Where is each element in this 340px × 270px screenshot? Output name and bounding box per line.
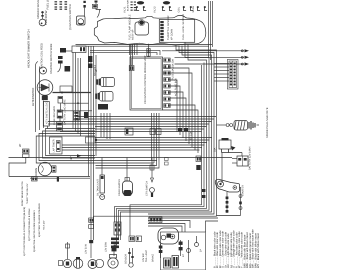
svg-text:SENS: SENS xyxy=(192,6,195,13)
label text xyxy=(238,231,241,268)
svg-text:LAP TIMER: LAP TIMER xyxy=(53,139,56,152)
wire xyxy=(95,160,157,162)
starter motor xyxy=(215,179,239,192)
svg-text:4) BATTERY CHARGE COUPLER: 4) BATTERY CHARGE COUPLER xyxy=(38,203,40,237)
label text xyxy=(118,179,121,196)
wire xyxy=(240,188,241,191)
svg-text:TO CDI: TO CDI xyxy=(190,132,193,140)
bottom right box xyxy=(161,232,206,270)
label text xyxy=(230,232,233,268)
left harness verticals xyxy=(88,46,90,177)
label text xyxy=(175,78,178,96)
svg-text:B ............ Black wire colo: B ............ Black wire color code xyxy=(213,231,216,268)
connector pin grid xyxy=(55,1,58,2)
tank outlet bundle xyxy=(176,46,217,115)
wire xyxy=(39,67,41,131)
svg-text:INJ 2: INJ 2 xyxy=(153,6,156,12)
meter M1 (speed sensor circle) xyxy=(39,19,46,26)
connector pair xyxy=(150,129,155,135)
arrow terminal 3 xyxy=(175,63,245,65)
headlight bulb L xyxy=(73,259,83,269)
starter relay xyxy=(219,140,231,149)
svg-text:Br ........... Brown wire colo: Br ........... Brown wire color code xyxy=(219,230,222,268)
label text xyxy=(266,107,269,138)
connector bars xyxy=(111,238,119,241)
label text xyxy=(182,254,185,257)
label text xyxy=(64,99,67,125)
wire xyxy=(97,10,100,18)
fuse holder 15A xyxy=(58,97,63,104)
label text xyxy=(224,232,227,268)
label text xyxy=(132,30,135,40)
svg-text:Bl ............ Blue wire colo: Bl ............ Blue wire color code xyxy=(216,232,219,268)
label text xyxy=(235,232,238,268)
svg-text:OIL TANK UNIT: OIL TANK UNIT xyxy=(97,179,100,196)
wire xyxy=(217,215,241,217)
connector pins xyxy=(41,12,43,14)
label text xyxy=(243,234,246,268)
fuel tank outline xyxy=(94,15,206,45)
label text xyxy=(26,184,28,204)
wire xyxy=(76,44,213,46)
svg-text:FUEL PUMP MODULE: FUEL PUMP MODULE xyxy=(129,14,132,40)
label text xyxy=(129,14,132,40)
svg-text:STARTER SWITCH WIRE: STARTER SWITCH WIRE xyxy=(50,44,53,74)
svg-text:CDI IGNITION CONTROL MODULE UN: CDI IGNITION CONTROL MODULE UNIT xyxy=(144,55,147,104)
arrow terminal xyxy=(77,154,82,157)
svg-text:Y .......... Yellow wire color: Y .......... Yellow wire color code xyxy=(241,232,244,268)
label text xyxy=(232,230,235,268)
label text xyxy=(144,55,147,104)
svg-text:(I) IGNITION SWITCH: (I) IGNITION SWITCH xyxy=(69,4,72,30)
wire xyxy=(9,157,26,176)
svg-text:ALTERNATOR: ALTERNATOR xyxy=(32,88,35,106)
svg-text:COIL: COIL xyxy=(178,7,181,13)
wire xyxy=(62,110,92,112)
svg-text:ASSY 4P: ASSY 4P xyxy=(132,30,135,40)
label text xyxy=(33,210,35,252)
ignition coil 1 xyxy=(101,78,115,87)
svg-text:BATTERY 12V 14AH: BATTERY 12V 14AH xyxy=(249,147,252,170)
svg-text:B/Br ... Black with Brown trac: B/Br ... Black with Brown tracer xyxy=(246,232,249,268)
label text xyxy=(95,69,98,72)
svg-text:FUSE 30A MAIN: FUSE 30A MAIN xyxy=(53,106,56,125)
regulator connector xyxy=(74,111,80,120)
beads on harness xyxy=(202,189,205,192)
diode pack xyxy=(125,128,133,135)
arrow terminal 2 xyxy=(175,56,245,58)
svg-text:CARB HEATER: CARB HEATER xyxy=(118,179,121,196)
wire band lower xyxy=(95,137,212,139)
connector blocks on harness xyxy=(88,56,92,62)
main fuse F1 xyxy=(57,110,62,118)
svg-text:12V 5W: 12V 5W xyxy=(142,253,145,262)
svg-text:1) PTV MOTOR RELAY A CONNECTOR: 1) PTV MOTOR RELAY A CONNECTOR (BLACK) xyxy=(23,207,25,256)
label text xyxy=(242,185,245,196)
lamp chain stub xyxy=(67,242,69,259)
lamp chain A xyxy=(90,208,92,258)
label text xyxy=(249,147,252,170)
verticals from ECU bottom xyxy=(100,113,102,137)
tank to ECU drop wires xyxy=(130,44,138,55)
label text xyxy=(28,209,30,241)
harness bundle right xyxy=(94,115,217,240)
svg-text:2P: 2P xyxy=(19,144,22,147)
harness bundle xyxy=(171,80,178,132)
fuse row xyxy=(164,58,170,62)
ground strap chain xyxy=(226,192,228,213)
svg-text:FRONT BRAKE SWITCH: FRONT BRAKE SWITCH xyxy=(21,181,23,206)
sensor drop 1 xyxy=(101,158,103,176)
lamp chain B xyxy=(114,236,117,256)
alternator A1 xyxy=(37,80,53,96)
svg-text:B/G ... Black with Green trace: B/G ... Black with Green tracer xyxy=(249,233,252,268)
label text xyxy=(21,181,23,206)
gear pos marks xyxy=(165,158,169,161)
label text xyxy=(142,253,145,262)
wire xyxy=(63,102,89,104)
connector marks on harness xyxy=(196,156,201,162)
injector connector caps xyxy=(137,1,144,4)
label text xyxy=(45,10,48,25)
connector block 8P xyxy=(227,60,238,90)
pickup coil circle xyxy=(40,67,47,74)
sensor drop 3 xyxy=(151,158,153,179)
svg-text:12V 21W: 12V 21W xyxy=(85,244,88,254)
harness bundle center xyxy=(151,113,153,161)
svg-text:TAIL LAMP: TAIL LAMP xyxy=(145,250,148,262)
wire xyxy=(59,103,62,122)
connector on CDI left edge xyxy=(129,66,134,71)
label text xyxy=(27,29,30,68)
label text xyxy=(43,221,45,230)
fuse holder on lead xyxy=(92,4,97,8)
connector pin pairs xyxy=(137,7,140,11)
connector mid pair xyxy=(129,236,135,242)
label text xyxy=(190,132,193,140)
CDI unit box xyxy=(130,57,163,110)
thermo sensor xyxy=(129,248,131,263)
wire xyxy=(76,45,209,47)
svg-text:Lg ......... Light green wire: Lg ......... Light green wire code xyxy=(230,232,233,268)
label text xyxy=(46,101,49,124)
label text xyxy=(153,6,156,12)
label text xyxy=(97,179,100,196)
regulator cylinder xyxy=(126,158,128,182)
sender pins xyxy=(160,21,163,23)
svg-text:CTR SWITCH: CTR SWITCH xyxy=(146,181,149,196)
label text xyxy=(50,44,53,74)
label text xyxy=(192,6,195,13)
harness drop wires xyxy=(72,53,74,129)
wire bundle corner xyxy=(46,129,96,156)
label text xyxy=(152,254,155,262)
svg-text:HORN: HORN xyxy=(35,168,38,176)
svg-text:HEADLIGHT DIMMER SWITCH: HEADLIGHT DIMMER SWITCH xyxy=(27,29,30,68)
label text xyxy=(167,16,170,40)
svg-text:Lbl ......... Light blue wire: Lbl ......... Light blue wire code xyxy=(227,233,230,268)
alternator base xyxy=(42,96,48,101)
svg-text:W ........... White wire color: W ........... White wire color code xyxy=(238,231,241,268)
fuel pump unit xyxy=(135,22,149,35)
terminal chain xyxy=(240,190,242,216)
label text xyxy=(254,233,257,268)
spark plug xyxy=(249,121,255,130)
dark connector strip xyxy=(149,217,162,223)
label text xyxy=(182,14,185,40)
label text xyxy=(170,29,173,40)
wire xyxy=(42,11,44,19)
svg-text:TO A 12V: TO A 12V xyxy=(43,221,45,230)
wire left harness xyxy=(36,62,39,133)
svg-text:KEY SWITCH LEAD: KEY SWITCH LEAD xyxy=(46,101,49,124)
svg-text:O .......... Orange wire color: O .......... Orange wire color code xyxy=(232,230,235,268)
svg-text:FUSE 10A 15A 20A: FUSE 10A 15A 20A xyxy=(172,59,175,80)
label text xyxy=(40,43,43,69)
wire xyxy=(47,126,49,129)
inner chains xyxy=(160,244,162,258)
label text xyxy=(227,233,230,268)
svg-text:SPEEDO SENSOR UNIT: SPEEDO SENSOR UNIT xyxy=(37,0,40,19)
ignition coil 2 xyxy=(100,92,114,102)
svg-text:2P: 2P xyxy=(200,249,203,252)
label text xyxy=(249,233,252,268)
tiny blocks xyxy=(178,128,182,131)
bottom blocks xyxy=(164,258,171,268)
svg-text:B/Y ... Black with Yellow trac: B/Y ... Black with Yellow tracer xyxy=(257,233,260,268)
connector on drop wire xyxy=(148,44,150,57)
svg-text:IGNITION COIL FEED: IGNITION COIL FEED xyxy=(40,43,43,69)
wire xyxy=(222,153,243,157)
svg-text:SPARK PLUG NGK CR7E: SPARK PLUG NGK CR7E xyxy=(266,107,269,138)
label text xyxy=(222,231,225,268)
label text xyxy=(19,144,22,147)
label text xyxy=(219,230,222,268)
svg-text:R ............. Red wire color: R ............. Red wire color code xyxy=(235,232,238,268)
svg-text:B/R .... Black with Red tracer: B/R .... Black with Red tracer wire xyxy=(252,229,255,268)
svg-text:B/W ... Black with White trace: B/W ... Black with White tracer xyxy=(254,233,257,268)
headlight circle xyxy=(38,162,51,175)
connector pin chain xyxy=(83,1,85,3)
pin stub xyxy=(57,177,59,182)
svg-text:B/Bl ... Black with Blue trace: B/Bl ... Black with Blue tracer xyxy=(243,234,246,268)
label text xyxy=(213,231,216,268)
headlight bulb pair xyxy=(88,260,97,269)
svg-text:THROTTLE SENSOR: THROTTLE SENSOR xyxy=(167,16,170,40)
coil label block xyxy=(98,104,108,110)
hour meter gauge xyxy=(77,16,86,25)
label text xyxy=(214,148,217,152)
svg-text:G ........... Green wire color: G ........... Green wire color code xyxy=(222,231,225,268)
wire xyxy=(84,8,86,16)
connector 2P xyxy=(23,149,30,153)
wire xyxy=(44,175,46,178)
label text xyxy=(216,232,219,268)
fuel level sender xyxy=(159,20,194,43)
wire xyxy=(96,3,101,10)
svg-text:INJECTOR: INJECTOR xyxy=(127,0,129,11)
label text xyxy=(94,65,96,76)
label text xyxy=(125,254,128,264)
label text xyxy=(246,232,249,268)
label text xyxy=(32,88,35,106)
label text xyxy=(105,242,108,252)
connector xyxy=(32,177,38,181)
wire xyxy=(58,64,61,73)
label text xyxy=(70,156,73,160)
label text xyxy=(257,233,260,268)
label text xyxy=(123,6,126,12)
label text xyxy=(200,249,203,252)
wire xyxy=(60,50,72,52)
alternator output wire xyxy=(53,92,92,94)
label text xyxy=(53,106,56,125)
svg-text:SENSOR: SENSOR xyxy=(125,254,128,264)
starter motor lead conduit xyxy=(43,102,49,127)
ignition coil xyxy=(234,121,248,131)
relay pin chain xyxy=(58,56,63,59)
arrow terminal 1 xyxy=(162,50,244,52)
label text xyxy=(46,0,49,9)
battery connector xyxy=(237,156,248,166)
svg-text:F/ACD/FW: F/ACD/FW xyxy=(45,10,48,25)
svg-text:FUEL LEVEL GAUGE: FUEL LEVEL GAUGE xyxy=(46,0,49,9)
label text xyxy=(85,244,88,254)
svg-text:Gr ........... Gray wire color: Gr ........... Gray wire color code xyxy=(224,232,227,268)
junction block xyxy=(86,137,96,143)
label text xyxy=(53,139,56,152)
small block xyxy=(84,112,88,118)
label text xyxy=(127,0,129,11)
label text xyxy=(23,207,25,256)
label text xyxy=(38,203,40,237)
wire xyxy=(221,153,223,184)
svg-text:BRAKE: BRAKE xyxy=(152,254,155,262)
svg-text:12V 35W: 12V 35W xyxy=(105,242,108,252)
pin grid top xyxy=(131,2,133,3)
svg-text:STARTER: STARTER xyxy=(242,185,245,196)
switch pod pill xyxy=(158,228,179,244)
label text xyxy=(145,250,148,262)
connector box xyxy=(72,46,86,53)
svg-text:4P CONN: 4P CONN xyxy=(170,29,173,40)
label text xyxy=(69,4,72,30)
tail bulb xyxy=(108,258,118,268)
fuse holder lower xyxy=(57,122,63,131)
wire bundle xyxy=(90,51,160,55)
drop wires tank to CDI xyxy=(131,44,133,65)
junction box xyxy=(60,86,72,92)
svg-text:4P: 4P xyxy=(70,156,73,160)
label text xyxy=(241,232,244,268)
svg-text:3) NEUTRAL SWITCH DIODE ASSEMB: 3) NEUTRAL SWITCH DIODE ASSEMBLY xyxy=(33,210,35,252)
wire band xyxy=(77,116,216,118)
label text xyxy=(35,168,38,176)
svg-text:4P: 4P xyxy=(182,254,185,257)
label text xyxy=(252,229,255,268)
svg-text:INJ 1: INJ 1 xyxy=(123,6,126,12)
wire xyxy=(43,101,45,129)
wire xyxy=(30,177,90,179)
connector block xyxy=(65,66,71,72)
label text xyxy=(146,181,149,196)
label text xyxy=(37,0,40,19)
label text xyxy=(172,59,175,80)
svg-text:THROTTLE SW 12V: THROTTLE SW 12V xyxy=(26,184,28,204)
spark plug lead xyxy=(217,124,227,126)
label text xyxy=(178,7,181,13)
timer box xyxy=(50,137,63,154)
wire xyxy=(9,176,90,178)
harness corner xyxy=(148,226,182,232)
tail lamp bulb xyxy=(59,261,63,266)
svg-text:2) PTV MOTOR RELAY B CONN: 2) PTV MOTOR RELAY B CONN xyxy=(28,209,30,241)
wires to block xyxy=(214,63,229,65)
svg-text:FUEL LEVEL SENDER: FUEL LEVEL SENDER xyxy=(182,14,185,40)
wire xyxy=(148,217,218,219)
